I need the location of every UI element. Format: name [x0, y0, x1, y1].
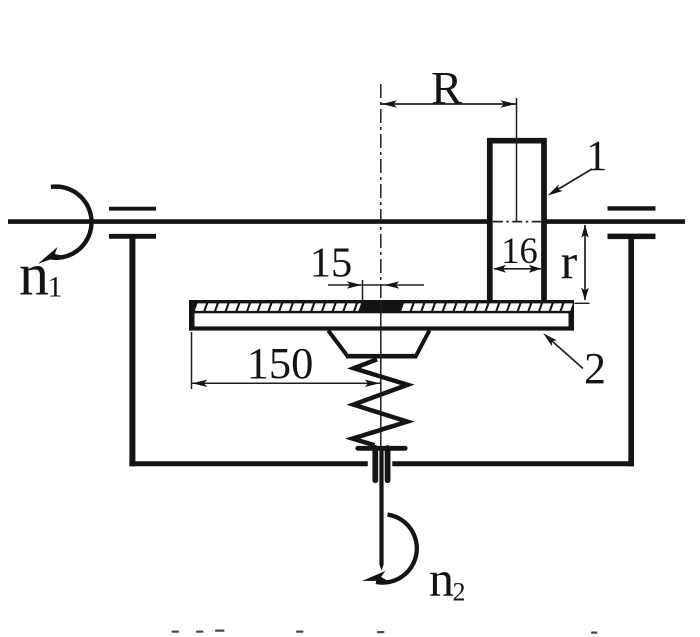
leader for label 2: [548, 338, 583, 369]
disk 2 with friction lining: [189, 300, 574, 331]
roller 1: [490, 141, 544, 302]
svg-text:n: n: [429, 551, 454, 607]
dimension 16: [494, 268, 541, 270]
svg-text:1: 1: [586, 133, 608, 180]
leader for label 1: [551, 169, 592, 194]
svg-text:150: 150: [247, 338, 314, 388]
rotation arrow n2: [376, 515, 417, 583]
spring: [353, 359, 408, 445]
hub trapezoid: [328, 331, 429, 357]
dimension r: [584, 225, 586, 300]
rotation arrow n1: [51, 187, 91, 258]
output shaft: [379, 447, 383, 565]
vertical dash-dot axis centerline: [380, 84, 382, 302]
svg-text:2: 2: [584, 344, 606, 393]
svg-text:16: 16: [501, 230, 538, 271]
svg-text:2: 2: [453, 578, 466, 607]
svg-text:n: n: [19, 242, 49, 308]
caption remnants at bottom edge: [172, 630, 598, 634]
dimension 150: [191, 332, 193, 389]
guide bars: [372, 448, 378, 480]
centerline through disk body (continuous): [380, 302, 382, 447]
svg-text:R: R: [431, 63, 463, 115]
svg-text:15: 15: [310, 239, 353, 286]
dimension R: [382, 103, 518, 105]
right bearing: [608, 206, 656, 210]
input shaft: [8, 219, 685, 224]
shaft hidden centerline inside roller: [493, 221, 541, 223]
left bearing: [109, 207, 156, 211]
svg-text:1: 1: [48, 271, 63, 304]
spring collar: [358, 446, 405, 451]
dimension 15: [328, 284, 424, 286]
svg-text:r: r: [561, 234, 578, 290]
frame housing: [129, 238, 634, 466]
roller centerline extension: [516, 98, 518, 221]
lining hatch: [195, 303, 573, 311]
